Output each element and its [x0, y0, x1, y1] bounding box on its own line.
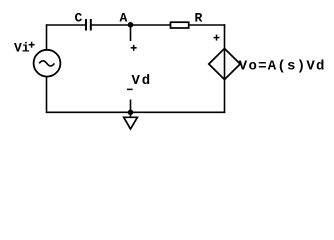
plus sign above diamond — [214, 35, 220, 41]
bottom rail wire — [47, 111, 226, 113]
wire resistor to top-right corner — [189, 24, 226, 26]
minus sign Vd bottom — [127, 88, 133, 90]
svg-text:C: C — [75, 11, 83, 26]
plus sign at source — [29, 42, 35, 48]
ground symbol — [124, 117, 138, 129]
svg-text:R: R — [195, 11, 203, 26]
svg-text:A: A — [120, 11, 128, 26]
svg-text:Vd: Vd — [132, 73, 152, 89]
svg-text:Vo=A(s)Vd: Vo=A(s)Vd — [239, 58, 326, 74]
wire node A stub down — [130, 25, 132, 41]
capacitor C1 — [86, 19, 91, 31]
resistor R1 — [171, 22, 189, 28]
wire right vertical (through diamond) down to bottom rail — [224, 24, 226, 113]
wire left vertical bottom (source to bottom rail) — [46, 77, 48, 114]
ground junction dot — [128, 110, 134, 116]
node A junction dot — [128, 22, 134, 28]
wire top rail left segment (source to capacitor) — [47, 24, 87, 26]
plus sign Vd top — [131, 45, 137, 51]
wire capacitor to resistor — [91, 24, 171, 26]
voltage source Vi (AC) — [34, 50, 61, 77]
svg-text:Vi: Vi — [14, 41, 30, 56]
wire ground stub — [130, 100, 132, 118]
sine symbol inside source — [39, 61, 54, 66]
dependent source diamond Vo=A(s)Vd — [209, 49, 240, 80]
wire left vertical top (source to top rail) — [46, 24, 48, 50]
